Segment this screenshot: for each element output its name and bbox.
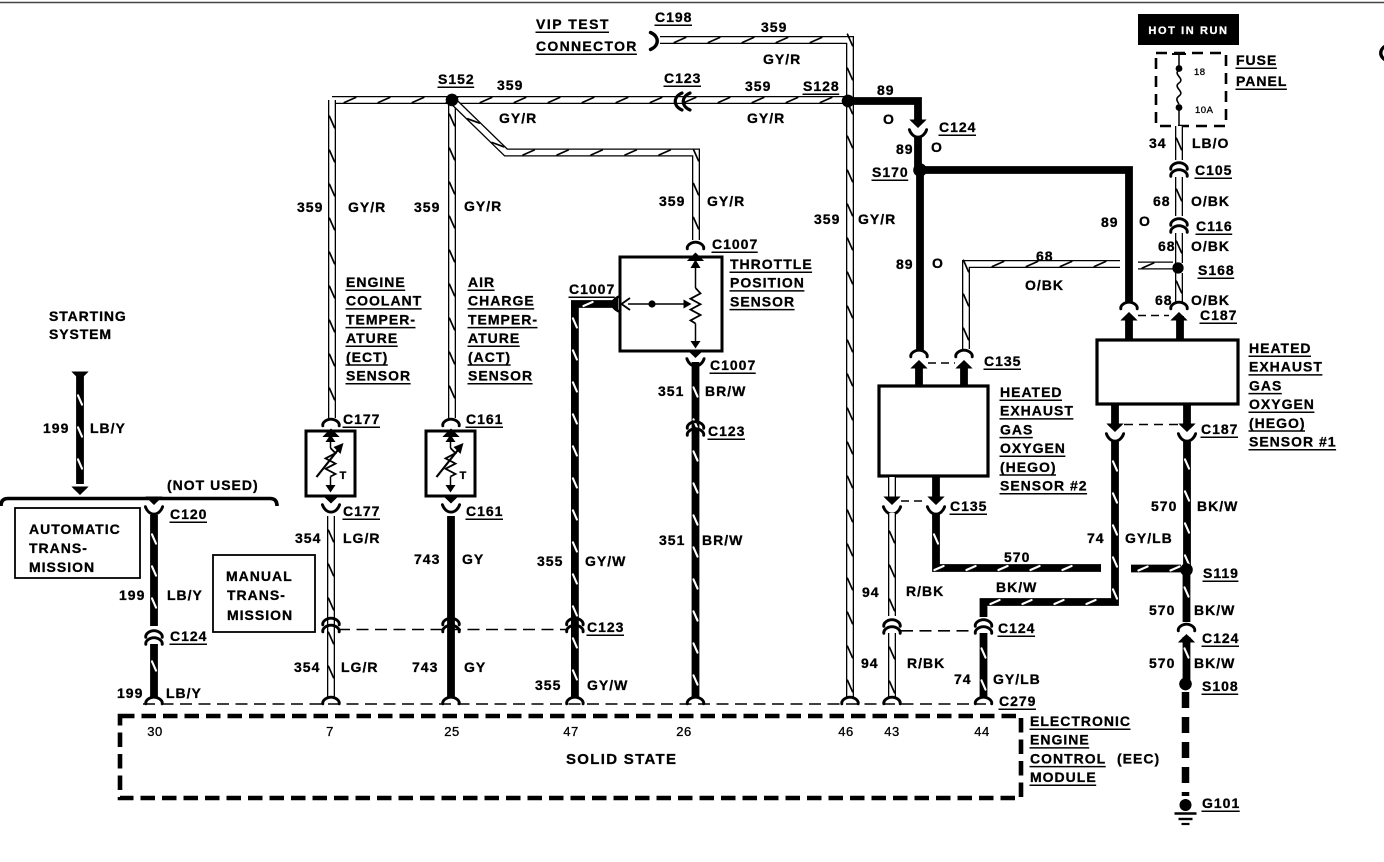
splice S128 label: [803, 78, 840, 94]
wire 359 GY/R from S152 down to ECT sensor: [330, 100, 335, 418]
svg-text:LB/Y: LB/Y: [166, 685, 202, 701]
svg-text:(NOT USED): (NOT USED): [167, 477, 259, 493]
svg-text:HEATED: HEATED: [1249, 340, 1312, 356]
connector C124 symbol (89 wire): [909, 120, 926, 138]
throttle position sensor: [620, 257, 722, 351]
label (NOT USED): [167, 477, 259, 493]
wire label 68 (S168-C187): [1155, 292, 1173, 308]
wire 68 O/BK C105 to C116: [1177, 177, 1182, 216]
svg-text:C135: C135: [984, 353, 1021, 369]
svg-text:BK/W: BK/W: [1197, 498, 1238, 514]
wire label GY/W (lower): [587, 677, 628, 693]
wire label 743 (upper): [414, 551, 440, 567]
terminal cup at EEC pin 43: [884, 697, 901, 704]
svg-text:S152: S152: [438, 71, 475, 87]
svg-text:POSITION: POSITION: [730, 275, 805, 291]
connector C105 symbol: [1171, 163, 1188, 177]
connector C187 lower label: [1201, 421, 1239, 437]
svg-text:GY/R: GY/R: [707, 193, 745, 209]
svg-text:O/BK: O/BK: [1191, 238, 1230, 254]
wire 89 O from S128 to C124 to S170: [848, 101, 918, 168]
wire label 199 (C120-C124): [119, 587, 145, 603]
HEGO sensor 1 box: [1097, 340, 1238, 404]
wire label 570 (horizontal): [1004, 549, 1030, 565]
fuse label 10A: [1195, 105, 1214, 116]
label STARTING SYSTEM line 1: [49, 308, 127, 324]
connector C123 chevrons on 351 wire: [687, 422, 704, 436]
svg-text:743: 743: [412, 659, 438, 675]
connector C161 top label: [466, 411, 504, 427]
svg-text:GY/R: GY/R: [858, 211, 896, 227]
wire label 68 (C116-S168): [1158, 238, 1176, 254]
connector C1007 left label: [569, 281, 616, 297]
wire 89 O from S170 down to HEGO sensor 2: [916, 170, 924, 350]
wire label 355 (lower): [535, 677, 561, 693]
connector C177 bottom symbol: [322, 495, 339, 512]
svg-text:GAS: GAS: [1000, 421, 1033, 437]
wire label O/BK (C105-C116): [1191, 193, 1230, 209]
svg-text:O: O: [1139, 213, 1151, 229]
svg-text:359: 359: [761, 19, 787, 35]
connector C135 lower dashed link: [901, 500, 926, 502]
svg-text:EXHAUST: EXHAUST: [1249, 359, 1323, 375]
connector C123 chevrons on 354 wire: [323, 618, 340, 632]
svg-text:743: 743: [414, 551, 440, 567]
svg-text:89: 89: [1101, 214, 1119, 230]
svg-text:94: 94: [862, 584, 880, 600]
splice S152 label: [438, 71, 475, 87]
wire label 359 (vertical 359 wire): [814, 211, 840, 227]
svg-text:ELECTRONIC: ELECTRONIC: [1030, 713, 1131, 729]
partial connector mark at right edge: [1381, 45, 1384, 61]
svg-text:SENSOR #2: SENSOR #2: [1000, 478, 1088, 494]
connector C279 label: [999, 693, 1037, 709]
connector C116 label: [1196, 218, 1233, 234]
splice S119 dot: [1180, 564, 1192, 576]
svg-text:O/BK: O/BK: [1191, 193, 1230, 209]
svg-text:O: O: [931, 139, 943, 155]
connector C187 upper dashed link: [1138, 315, 1169, 317]
wire 89 O from S170 right and down to HEGO sensor 1: [920, 170, 1129, 302]
svg-text:PANEL: PANEL: [1236, 73, 1287, 89]
svg-text:BR/W: BR/W: [702, 532, 743, 548]
wire 94 R/BK from C135 to EEC pin 43: [890, 513, 895, 616]
svg-text:SYSTEM: SYSTEM: [49, 326, 112, 342]
wire label GY/LB (upper): [1125, 530, 1173, 546]
wire label LB/Y (starting system): [90, 420, 126, 436]
wire label 354 (upper): [295, 530, 321, 546]
connector C279 dashed line: [143, 703, 986, 705]
svg-text:C124: C124: [998, 620, 1035, 636]
svg-text:18: 18: [1194, 67, 1206, 78]
wire 68 O/BK S168 to C187: [1177, 273, 1182, 303]
connector C124 mid dashed link: [901, 630, 974, 632]
wire label BK/W (horizontal): [996, 579, 1037, 595]
svg-text:C161: C161: [466, 411, 503, 427]
wire label GY/LB (lower): [993, 671, 1041, 687]
splice S170 dot: [914, 164, 927, 177]
wire label 359 (ECT branch): [297, 199, 323, 215]
wire stub 74 below HEGO1: [1111, 405, 1119, 426]
connector C124 symbol (570 wire): [1178, 624, 1195, 642]
svg-text:354: 354: [295, 530, 321, 546]
wire label GY/R (C198 wire): [763, 51, 801, 67]
wire label 743 (lower): [412, 659, 438, 675]
label HEATED EXHAUST GAS OXYGEN (HEGO) SENSOR #2: [1000, 384, 1088, 494]
wire 359 GY/R from C198 to S128 and down to EEC pin 46: [660, 34, 853, 698]
wire label GY/W (upper): [585, 553, 626, 569]
svg-text:BK/W: BK/W: [1194, 655, 1235, 671]
svg-text:68: 68: [1158, 238, 1176, 254]
wire label GY (upper): [462, 551, 484, 567]
connector C1007 bottom symbol: [687, 350, 704, 367]
svg-text:GY/LB: GY/LB: [993, 671, 1041, 687]
connector C135 upper symbols: [910, 350, 972, 368]
wire label 74 (upper): [1087, 530, 1105, 546]
wire label O (HEGO2 branch): [932, 255, 944, 271]
svg-text:355: 355: [535, 677, 561, 693]
svg-text:VIP TEST: VIP TEST: [536, 16, 610, 32]
splice S170 label: [872, 164, 909, 180]
svg-text:25: 25: [444, 724, 459, 739]
connector C124 label (570 wire): [1202, 630, 1240, 646]
connector C187 upper label: [1200, 307, 1238, 323]
svg-text:34: 34: [1149, 135, 1167, 151]
connector C177 top label: [343, 411, 381, 427]
connector C105 label: [1195, 162, 1233, 178]
ground G101 label: [1202, 795, 1241, 811]
svg-text:C120: C120: [170, 506, 207, 522]
connector C135 upper dashed link: [928, 362, 955, 364]
svg-text:94: 94: [861, 655, 879, 671]
wire label 89 (HEGO1 branch): [1101, 214, 1119, 230]
svg-text:351: 351: [659, 532, 685, 548]
svg-text:R/BK: R/BK: [906, 583, 944, 599]
wire label LB/O: [1192, 135, 1229, 151]
svg-text:C123: C123: [587, 619, 624, 635]
connector C124 chevrons on 94 wire: [884, 620, 901, 634]
wire 74 GY/LB from C187 to C124: [984, 440, 1118, 617]
svg-text:359: 359: [497, 77, 523, 93]
wire label BK/W (C187-S119): [1197, 498, 1238, 514]
connector C187 lower dashed link: [1124, 424, 1178, 426]
svg-text:10A: 10A: [1195, 105, 1214, 116]
svg-text:GY/W: GY/W: [587, 677, 628, 693]
connector C123 label (351 wire): [708, 423, 746, 439]
wire label R/BK (lower): [907, 655, 945, 671]
svg-text:OXYGEN: OXYGEN: [1249, 396, 1315, 412]
svg-text:LB/O: LB/O: [1192, 135, 1229, 151]
ground G101 symbol: [1175, 799, 1197, 824]
wire label 359 (C198 wire): [761, 19, 787, 35]
wire label 68 (HEGO2 branch): [1036, 248, 1054, 264]
wire label 359 (S152-C123): [497, 77, 523, 93]
svg-text:COOLANT: COOLANT: [346, 293, 422, 309]
svg-text:CONNECTOR: CONNECTOR: [536, 38, 638, 54]
fuse symbol: [1172, 54, 1186, 126]
wire stub 570 below HEGO2: [932, 477, 940, 498]
wire label 74 (lower): [954, 671, 972, 687]
wire 359 GY/R from ECT corner to S152 to C123 to S128: [332, 98, 846, 103]
svg-text:ATURE: ATURE: [468, 330, 520, 346]
connector C1007 left symbol: [611, 296, 620, 312]
wire 570 BK/W from C124 to S108: [1185, 637, 1189, 680]
label STARTING SYSTEM line 2: [49, 326, 112, 342]
wire 570 BK/W from C187 to S119: [1185, 440, 1189, 567]
wire label 199 (starting system): [43, 420, 69, 436]
wire label GY/R (vertical 359 wire): [858, 211, 896, 227]
wire label O (S128): [883, 111, 895, 127]
wire dashed to ground G101: [1182, 692, 1190, 796]
wire label BK/W (S119-C124): [1194, 602, 1235, 618]
wire label 355 (upper): [537, 553, 563, 569]
splice S119 label: [1203, 565, 1239, 581]
EEC pin numbers 30 7 25 47 26 46 43 44: [147, 724, 989, 739]
splice S128 dot: [842, 95, 854, 107]
svg-text:LG/R: LG/R: [343, 530, 380, 546]
connector C187 upper symbols: [1120, 302, 1187, 320]
svg-text:68: 68: [1036, 248, 1054, 264]
svg-text:SOLID STATE: SOLID STATE: [566, 751, 677, 768]
label HEATED EXHAUST GAS OXYGEN (HEGO) SENSOR #1: [1249, 340, 1337, 450]
svg-text:GY/W: GY/W: [585, 553, 626, 569]
svg-text:26: 26: [676, 724, 691, 739]
splice S108 label: [1202, 678, 1239, 694]
wire 354 LG/R from C177 to EEC pin 7: [329, 516, 334, 698]
svg-text:GAS: GAS: [1249, 377, 1282, 393]
wire label O (HEGO1 branch): [1139, 213, 1151, 229]
terminal cup at EEC pin 46: [842, 697, 859, 704]
svg-text:O: O: [932, 255, 944, 271]
wire label 199 (lower): [117, 685, 143, 701]
wire label 68 (C105-C116): [1153, 193, 1171, 209]
wire 199 LB/Y from starting system: [71, 372, 88, 496]
svg-text:BK/W: BK/W: [1194, 602, 1235, 618]
splice dots overlay: [446, 94, 1193, 690]
connector C123 label (top): [664, 70, 702, 86]
svg-text:89: 89: [877, 82, 895, 98]
svg-text:C177: C177: [343, 411, 380, 427]
svg-text:O/BK: O/BK: [1191, 292, 1230, 308]
svg-text:43: 43: [884, 724, 899, 739]
splice S168 label: [1198, 262, 1235, 278]
svg-text:C1007: C1007: [712, 236, 758, 252]
svg-text:TRANS-: TRANS-: [227, 587, 286, 603]
connector C123 chevrons on 743 wire: [443, 618, 460, 632]
connector C124 chevrons on 199 wire: [146, 631, 163, 645]
svg-text:74: 74: [954, 671, 972, 687]
svg-text:HEATED: HEATED: [1000, 384, 1063, 400]
wire 351 BR/W from C1007 bottom to EEC pin 26: [694, 362, 698, 698]
wire label 89 (S128): [877, 82, 895, 98]
svg-text:GY/R: GY/R: [348, 199, 386, 215]
wire 570 BK/W from C135 to S119: [934, 513, 1181, 571]
connector C161 bottom label: [466, 503, 504, 519]
connector C123 inline symbol (top): [675, 93, 690, 110]
svg-text:C198: C198: [655, 9, 692, 25]
svg-text:(EEC): (EEC): [1117, 750, 1160, 766]
wire label 94 (upper): [862, 584, 880, 600]
connector C187 lower symbols: [1106, 424, 1195, 442]
wire label BK/W (C124-S108): [1194, 655, 1235, 671]
svg-text:570: 570: [1004, 549, 1030, 565]
wire label 570 (C187-S119): [1151, 498, 1177, 514]
ACT sensor (thermistor): [426, 431, 475, 496]
svg-text:MANUAL: MANUAL: [226, 568, 293, 584]
connector C135 lower symbols: [883, 497, 944, 515]
svg-text:GY: GY: [464, 659, 486, 675]
terminal cup at EEC pin 26: [687, 697, 704, 704]
svg-text:S170: S170: [872, 164, 909, 180]
wire label GY/R (TPS branch): [707, 193, 745, 209]
wire label O/BK (S168-C187): [1191, 292, 1230, 308]
svg-text:30: 30: [147, 724, 162, 739]
svg-text:R/BK: R/BK: [907, 655, 945, 671]
connector C135 lower label: [950, 498, 988, 514]
svg-text:7: 7: [326, 724, 334, 739]
svg-text:SENSOR #1: SENSOR #1: [1249, 434, 1337, 450]
EEC module box: [120, 716, 1021, 798]
wire label 34: [1149, 135, 1167, 151]
wire label GY/R (S152-C123): [499, 110, 537, 126]
wire label GY (lower): [464, 659, 486, 675]
svg-text:OXYGEN: OXYGEN: [1000, 440, 1066, 456]
svg-text:SENSOR: SENSOR: [730, 293, 795, 309]
wire label 89 (C124-S170): [896, 141, 914, 157]
svg-text:570: 570: [1149, 655, 1175, 671]
svg-text:(ECT): (ECT): [346, 349, 388, 365]
connector C123 dashed line: [338, 629, 568, 631]
svg-text:74: 74: [1087, 530, 1105, 546]
svg-text:89: 89: [896, 256, 914, 272]
terminal cup at EEC pin 25: [443, 697, 460, 704]
connector C116 symbol: [1171, 219, 1188, 233]
svg-text:C123: C123: [664, 70, 701, 86]
wire label GY/R (ACT branch): [464, 198, 502, 214]
svg-text:TRANS-: TRANS-: [29, 540, 88, 556]
label AIR CHARGE TEMPERATURE (ACT) SENSOR: [468, 274, 539, 384]
svg-text:359: 359: [745, 78, 771, 94]
svg-text:199: 199: [117, 685, 143, 701]
connector C177 bottom label: [343, 503, 381, 519]
svg-text:ENGINE: ENGINE: [346, 274, 406, 290]
wire 68 O/BK horizontal to HEGO2: [964, 260, 1121, 349]
svg-text:GY/R: GY/R: [763, 51, 801, 67]
svg-text:C1007: C1007: [569, 281, 615, 297]
label SOLID STATE: [566, 751, 677, 768]
label CONTROL (EEC): [1030, 750, 1161, 766]
svg-text:46: 46: [838, 724, 853, 739]
svg-text:HOT IN RUN: HOT IN RUN: [1148, 25, 1228, 37]
svg-text:47: 47: [563, 724, 578, 739]
svg-text:T: T: [460, 470, 467, 482]
wire label LB/Y (C120-C124): [167, 587, 203, 603]
wire label 359 (C123-S128): [745, 78, 771, 94]
connector C161 top symbol: [442, 419, 459, 437]
wire label O (C124-S170): [931, 139, 943, 155]
fuse panel box: [1156, 53, 1226, 126]
svg-text:89: 89: [896, 141, 914, 157]
connector C198 symbol: [651, 33, 658, 50]
wire 199 LB/Y from C120 to C124: [152, 515, 156, 626]
svg-text:TEMPER-: TEMPER-: [346, 311, 416, 327]
wire label O/BK (HEGO2 branch): [1025, 277, 1064, 293]
svg-text:THROTTLE: THROTTLE: [730, 256, 813, 272]
connector C1007 bottom label: [710, 357, 757, 373]
splice S108 dot: [1179, 678, 1191, 690]
wire label O/BK (C116-S168): [1191, 238, 1230, 254]
svg-text:GY/R: GY/R: [464, 198, 502, 214]
wire label 359 (ACT branch): [414, 199, 440, 215]
label THROTTLE POSITION SENSOR: [730, 256, 813, 310]
terminal cup at EEC pin 30: [146, 697, 163, 704]
label ELECTRONIC ENGINE CONTROL (EEC) MODULE part1: [1030, 713, 1132, 748]
automatic transmission box: [15, 508, 140, 578]
wire label LG/R (upper): [343, 530, 380, 546]
svg-text:AIR: AIR: [468, 274, 495, 290]
connector C177 top symbol: [322, 419, 339, 437]
svg-text:C279: C279: [999, 693, 1036, 709]
wire label 89 (HEGO2 branch): [896, 256, 914, 272]
svg-text:68: 68: [1153, 193, 1171, 209]
svg-text:C116: C116: [1196, 218, 1233, 234]
wire 570 BK/W from S119 to C124: [1185, 574, 1189, 622]
wire 68 O/BK C116 to S168: [1177, 233, 1182, 263]
splice S152 dot: [446, 94, 458, 106]
svg-text:GY/R: GY/R: [499, 110, 537, 126]
terminal cup at EEC pin 47: [567, 697, 584, 704]
connector C123 label (dashed line): [587, 619, 625, 635]
svg-text:359: 359: [297, 199, 323, 215]
svg-text:359: 359: [659, 193, 685, 209]
wire 34 LB/O fuse panel to C105: [1177, 126, 1182, 160]
svg-text:LB/Y: LB/Y: [167, 587, 203, 603]
wire label BR/W (upper): [705, 383, 746, 399]
svg-text:354: 354: [294, 659, 320, 675]
svg-text:C187: C187: [1200, 307, 1237, 323]
svg-text:O/BK: O/BK: [1025, 277, 1064, 293]
svg-text:C124: C124: [939, 119, 976, 135]
svg-text:199: 199: [43, 420, 69, 436]
svg-text:C135: C135: [950, 498, 987, 514]
svg-text:C177: C177: [343, 503, 380, 519]
wire stubs into HEGO2 box: [919, 364, 964, 387]
svg-text:SENSOR: SENSOR: [468, 368, 533, 384]
connector C123 chevrons on 355 wire: [567, 618, 584, 632]
wire label LG/R (lower): [341, 659, 378, 675]
manual transmission box: [213, 555, 315, 632]
svg-text:BR/W: BR/W: [705, 383, 746, 399]
wire 68 O/BK from S168 stub: [1138, 263, 1173, 268]
svg-text:EXHAUST: EXHAUST: [1000, 403, 1074, 419]
svg-text:570: 570: [1151, 498, 1177, 514]
svg-text:570: 570: [1149, 602, 1175, 618]
ECT sensor (thermistor): [306, 431, 355, 496]
connector C120 label: [170, 506, 208, 522]
terminal cup at EEC pin 7: [323, 697, 340, 704]
wire label 570 (C124-S108): [1149, 655, 1175, 671]
svg-text:C124: C124: [170, 628, 207, 644]
wire stubs into HEGO1 box: [1129, 316, 1180, 341]
svg-text:S119: S119: [1203, 565, 1239, 581]
splice S168 dot: [1172, 262, 1183, 273]
connector C124 label (89 wire): [939, 119, 977, 135]
connector C124 label (mid): [998, 620, 1036, 636]
svg-text:C123: C123: [708, 423, 745, 439]
svg-text:C1007: C1007: [710, 357, 756, 373]
svg-text:STARTING: STARTING: [49, 308, 127, 324]
svg-text:CONTROL: CONTROL: [1030, 750, 1106, 766]
